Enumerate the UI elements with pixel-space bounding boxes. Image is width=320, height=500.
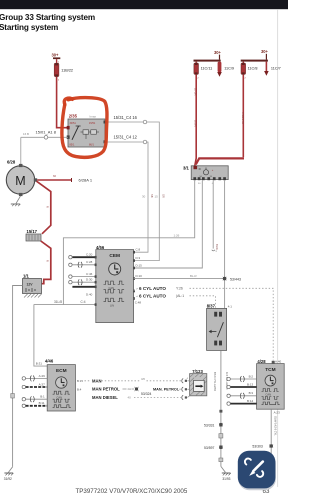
svg-text:30/51: 30/51 [70,122,77,125]
wire starter motor to terminal 15/17 (battery cable) [37,181,51,234]
ECM 4/46 [45,358,75,411]
svg-text:B:31: B:31 [36,362,43,366]
annotation circle (red marker around relay 2/35) [62,98,107,158]
svg-text:8/37: 8/37 [207,304,216,309]
wire ignition switch 50 to CEM (around frame) [63,180,194,304]
CEM 4/56 [96,245,134,323]
ECM left pin B:1 [22,395,47,402]
svg-text:+: + [42,279,44,283]
svg-text:B:1: B:1 [40,395,45,399]
splice 53/597 [204,445,223,449]
CEM left pin C:20 (twisted pair) [69,253,96,259]
wire ignition switch 30 feed to splice 53/443 [215,180,225,311]
svg-text:4/28: 4/28 [257,359,266,364]
svg-text:31/92: 31/92 [4,477,12,481]
CEM left pin D:30 [69,278,96,285]
svg-text:6R: 6R [53,175,56,178]
svg-text:B:2: B:2 [249,374,254,378]
CEM pin squares [95,251,135,306]
wire fuse 11B/22 to relay 2/35 pin 30 [57,77,69,128]
svg-text:B:15: B:15 [77,379,83,383]
CEM left pin C:46 [69,272,96,278]
wire terminal 15/17 to battery 1/1 [41,241,51,284]
svg-text:D:10: D:10 [136,274,143,278]
svg-text:B:4: B:4 [77,387,82,391]
ECM left pin A:37 (twisted) [22,382,47,388]
svg-text:2H: 2H [128,387,132,391]
svg-text:53/597: 53/597 [204,446,214,450]
svg-text:C:46: C:46 [86,272,93,276]
TCM 4/28 [257,359,285,409]
TCM left pin B:14 (twisted) [227,399,257,405]
svg-text:12V: 12V [27,283,34,287]
svg-text:16GN: 16GN [194,120,198,127]
svg-text:31/93: 31/93 [222,477,230,481]
svg-text:R: R [46,206,50,208]
wire TCM A:23 to splice 53/303 [271,409,280,456]
svg-text:B:14: B:14 [247,399,254,403]
ground 31/92 [4,467,14,481]
svg-text:D:40: D:40 [86,292,93,296]
svg-text:D:15: D:15 [136,263,143,267]
wire CEM D:10 to splice 53/443 [134,274,225,278]
svg-text:TCM: TCM [265,367,275,373]
svg-text:31L/8: 31L/8 [54,300,62,304]
svg-text:(AL:1: (AL:1 [176,294,184,298]
svg-text:4/46: 4/46 [45,358,54,363]
connector 7/123 [187,369,207,396]
svg-text:2/35: 2/35 [69,114,78,119]
dashed wire 6 CYL AUTO to TCM [134,286,274,361]
svg-text:CAN: CAN [109,286,115,290]
ground at starter motor [11,196,21,206]
svg-text:15/31_C4 16: 15/31_C4 16 [114,115,138,120]
terminal 15/17 [26,229,41,241]
svg-text:15/01_A1 8: 15/01_A1 8 [36,130,57,135]
svg-text:BL-R: BL-R [190,274,197,278]
svg-text:16 B: 16 B [23,132,29,136]
svg-text:BN 6 CYL AUTO: BN 6 CYL AUTO [213,372,217,391]
svg-text:C:48: C:48 [135,301,142,305]
wire ignition switch 15 to CEM D:15 [134,180,203,268]
svg-text:4/56: 4/56 [96,245,105,250]
svg-text:16 GN: 16 GN [194,88,198,96]
splice 53/303 [252,444,273,448]
svg-text:A:23: A:23 [274,410,281,414]
svg-text:Y/W34/YB: Y/W34/YB [241,112,245,124]
wire ECM B:15 MAN to connector 7/123 [77,377,190,383]
wire relay 2/35 pin 15/51 to CEM (upper) [106,115,165,261]
node 30+ C [241,49,269,61]
svg-text:CAN: CAN [57,395,63,399]
svg-text:LIN: LIN [110,304,114,308]
wire battery negative to ground 31/92 [11,286,23,467]
svg-text:GR: GR [162,194,166,198]
svg-text:30+: 30+ [52,53,60,58]
svg-text:GL/W 14:2 6 CYL: GL/W 14:2 6 CYL [274,416,277,436]
fuse 11B/22 [54,59,73,81]
svg-text:7/123: 7/123 [192,369,203,374]
svg-text:4:1: 4:1 [228,305,233,309]
TCM left pin B:13 (twisted) [227,382,257,388]
svg-text:CAN: CAN [266,393,272,397]
CEM right pin labels [135,248,142,305]
svg-text:B:13: B:13 [247,382,254,386]
splice 53/443 [223,277,241,282]
ground 31/93 [221,466,231,480]
header bar [0,0,288,9]
wire relay 2/35 to CEM (lower) [106,135,154,253]
svg-text:TP3977202 V70/V70R/XC70/XC90 2: TP3977202 V70/V70R/XC70/XC90 2005 [76,488,188,495]
svg-text:1/1: 1/1 [23,274,29,279]
svg-text:CEM: CEM [109,253,120,259]
svg-text:15: 15 [155,195,159,199]
CEM left pin D:40 (twisted pair) [72,287,95,297]
svg-text:11C/11: 11C/11 [201,67,213,71]
svg-text:30+: 30+ [214,50,222,55]
svg-text:6 CYL AUTO: 6 CYL AUTO [139,286,166,291]
node 30+ B [194,50,222,62]
svg-text:6/28: 6/28 [7,160,16,165]
svg-text:D:3: D:3 [136,256,141,260]
svg-text:53/324: 53/324 [141,392,151,396]
svg-text:B:3: B:3 [249,391,254,395]
fuse 11C/11 [194,62,212,80]
svg-text:11B/22: 11B/22 [61,68,73,72]
svg-text:Group 33 Starting system: Group 33 Starting system [0,13,95,22]
starter motor 6/28 [6,160,37,196]
ECM left pin B:11 (twisted) [22,401,47,407]
svg-text:30+: 30+ [261,49,269,54]
edit button (blue) [238,451,276,490]
svg-text:Imax: Imax [90,114,97,118]
svg-text:3/1: 3/1 [183,166,189,171]
svg-text:BL/R: BL/R [215,244,219,250]
svg-text:15/51: 15/51 [89,122,96,125]
CEM left pin C:28 [69,260,96,267]
dashed wire 6 CYL AUTO to inhibitor switch 8/37 [134,293,216,312]
footer text [76,488,270,495]
svg-text:C:28: C:28 [86,260,93,264]
title text [0,13,95,32]
svg-text:C:8: C:8 [136,248,141,252]
svg-text:B:11: B:11 [39,401,45,405]
svg-text:86/1: 86/1 [89,144,94,147]
rotated wire labels near 7/123 [213,372,229,391]
fuse 11C/8 [241,62,257,80]
page edge line [277,9,279,487]
svg-text:3/6: 3/6 [141,377,145,381]
svg-text:40: 40 [128,395,132,399]
battery chassis hatching [24,294,42,298]
svg-text:53/303: 53/303 [252,445,262,449]
svg-text:30: 30 [142,195,146,199]
feed arrow 11C/9 [217,62,234,77]
relay 2/35 [67,114,107,147]
ignition switch 3/1 [183,166,228,185]
ECM left pin A:49 [22,374,47,382]
TCM left pin B:2 [227,374,257,382]
wire ground lead 31L/8 to CEM C:4 and ECM [34,300,96,366]
svg-text:ECM: ECM [56,368,67,374]
wire ECM MAN DIESEL to 7/123 [92,395,190,400]
splice 53/331 [204,423,223,427]
svg-text:6/28A 1: 6/28A 1 [79,178,93,183]
feed arrow 11C/7 [264,62,281,76]
svg-text:D:30: D:30 [86,278,93,282]
svg-text:15/31_C4 12: 15/31_C4 12 [114,135,138,140]
wire fuse 11C/11 to ignition switch pin 30 [194,74,198,165]
svg-text:11C/7: 11C/7 [271,67,281,71]
wire fuse 11C/8 to ignition switch [196,74,245,164]
svg-text:15/17: 15/17 [27,229,38,234]
inhibitor switch 8/37 [207,304,233,351]
battery 1/1 [23,274,45,294]
wire relay to connector A1 pin 8 and starter motor [21,130,68,165]
svg-text:85/1: 85/1 [70,144,75,147]
svg-text:C:4: C:4 [81,300,86,304]
svg-text:11C/8: 11C/8 [248,67,258,71]
svg-text:C:20: C:20 [86,253,93,257]
svg-text:6 CYL AUTO: 6 CYL AUTO [139,293,166,298]
svg-text:A:37: A:37 [39,382,46,386]
svg-text:A:40: A:40 [275,360,282,364]
wire starter solenoid terminal 6/28A 1 [37,175,93,183]
svg-text:Y:26: Y:26 [176,287,183,291]
svg-text:A:49: A:49 [39,374,46,378]
svg-text:MAN. PETROL: MAN. PETROL [153,387,180,391]
stub wire ignition switch pin X [212,180,218,253]
svg-text:1:26: 1:26 [174,234,180,238]
svg-text:M: M [15,174,25,188]
wire ECM B:4 MAN PETROL to 7/123 with splice 53/324 [77,387,190,396]
svg-text:53/443: 53/443 [230,277,241,281]
svg-text:MAN: MAN [92,378,102,383]
TCM left pin B:3 [227,391,257,398]
svg-text:Starting system: Starting system [0,23,58,32]
node 30+ A [52,53,61,60]
svg-text:MAN DIESEL: MAN DIESEL [92,395,118,400]
svg-text:R: R [46,260,50,262]
svg-text:MAN PETROL: MAN PETROL [92,387,120,392]
svg-text:11C/9: 11C/9 [224,67,234,71]
svg-text:SB: SB [150,194,154,198]
wire inhibitor switch to splices and ground [219,350,223,466]
svg-text:53/331: 53/331 [204,423,214,427]
